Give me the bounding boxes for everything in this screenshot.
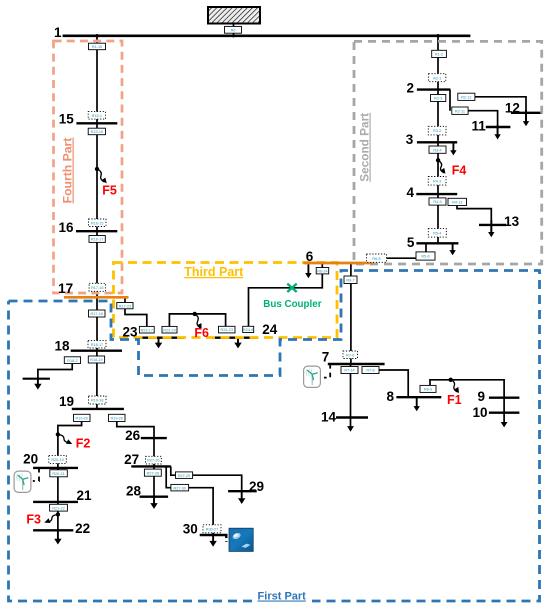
svg-text:R27-30: R27-30 [174, 486, 186, 490]
svg-text:R27-29: R27-29 [178, 474, 190, 478]
wire bus 6 feeder drop [321, 263, 323, 268]
svg-text:R24-6: R24-6 [243, 328, 253, 332]
bus 8 [396, 396, 441, 398]
svg-text:12: 12 [505, 100, 520, 115]
relay R18-19 [88, 356, 104, 363]
svg-text:6: 6 [306, 249, 314, 264]
bus 23 [137, 337, 184, 339]
First Part boundary polygon [9, 271, 540, 602]
Fourth Part boundary box [54, 41, 123, 293]
wire relay R2-12 to bus 12 [475, 97, 526, 122]
wire bus 27 to bus 30 branch [166, 466, 171, 487]
bus 24 [212, 337, 258, 339]
fault dot F5 [95, 167, 99, 171]
wire bus 7 to bus 14 [350, 364, 352, 427]
wire bus 30 to PV dashes [225, 536, 227, 543]
svg-text:R4-13: R4-13 [452, 201, 462, 205]
wire relay R27-30 to bus 30 [189, 488, 214, 535]
svg-text:R20-21: R20-21 [52, 472, 64, 476]
svg-text:R1-2: R1-2 [435, 53, 443, 57]
svg-text:24: 24 [262, 322, 278, 337]
wire bus 18 load branch [38, 364, 72, 379]
Second Part boundary box [354, 41, 542, 264]
load arrow at bus 5 [449, 243, 455, 255]
relay R7-8 [362, 367, 379, 374]
load arrow at bus 3 [450, 142, 456, 155]
wire bus 19 to bus 26 branch [117, 422, 154, 468]
svg-text:11: 11 [471, 118, 486, 133]
svg-text:R18-2: R18-2 [67, 359, 77, 363]
svg-text:R2-12: R2-12 [461, 95, 471, 99]
load arrow at bus 24 [234, 338, 241, 349]
wire bus 15 to bus 16 [96, 123, 98, 231]
load arrow at bus 29 [238, 491, 245, 504]
wind turbine connector at bus 7 [324, 364, 330, 378]
bus 12 [511, 112, 542, 114]
wire bus 6 to bus 7 [350, 263, 352, 364]
svg-text:R18-17: R18-17 [91, 343, 103, 347]
bus 15 [76, 122, 117, 124]
load arrow at bus 13 [488, 220, 494, 237]
svg-text:13: 13 [504, 214, 520, 229]
relay R2-1 [429, 74, 446, 82]
wire bus 17 to bus 23 [125, 297, 147, 326]
relay R20-19 [49, 456, 67, 464]
load arrow at bus 8 [414, 397, 420, 411]
relay R15-16 [88, 128, 105, 135]
svg-text:F1: F1 [447, 393, 462, 407]
svg-text:4: 4 [406, 185, 414, 200]
bus 10 [489, 412, 520, 414]
bus 29 [228, 490, 257, 492]
relay R27-29 [176, 472, 193, 479]
svg-text:1: 1 [54, 25, 62, 40]
bus coupler X switch [287, 284, 296, 292]
wire relay R5-6 to bus 5 [425, 243, 427, 252]
svg-text:R20-19: R20-19 [51, 458, 63, 462]
bus 28 [140, 496, 169, 498]
fault dot F6 [193, 312, 197, 316]
svg-text:R19-20: R19-20 [76, 417, 88, 421]
relay R18-17 [88, 341, 106, 348]
junction on bus 1 at grid [232, 34, 235, 37]
svg-text:7: 7 [322, 349, 330, 364]
wire bus 17 to bus 18 [96, 297, 98, 350]
svg-text:3: 3 [406, 132, 414, 147]
relay R30-27 [203, 525, 221, 533]
svg-text:R23-24: R23-24 [163, 328, 175, 332]
fault dot F2 [56, 432, 60, 436]
svg-text:R17-18: R17-18 [91, 312, 103, 316]
wire bus 16 to bus 17 [96, 231, 98, 297]
svg-text:R17-23: R17-23 [119, 304, 131, 308]
svg-text:R16-17: R16-17 [91, 238, 103, 242]
svg-text:22: 22 [75, 521, 90, 536]
relay R6-24 [316, 268, 329, 274]
bus 16 [76, 230, 117, 232]
svg-text:2: 2 [406, 80, 414, 95]
svg-text:Third Part: Third Part [184, 265, 244, 279]
wire bus 8 to buses 9 and 10 [430, 380, 504, 423]
junction on bus 1 at R1-2 feeder [436, 34, 440, 38]
bus 11 [486, 126, 511, 128]
svg-text:10: 10 [472, 405, 487, 420]
svg-text:27: 27 [124, 452, 139, 467]
svg-text:R19-26: R19-26 [111, 417, 123, 421]
load arrow at bus 30 [209, 535, 216, 547]
svg-text:5: 5 [407, 235, 415, 250]
load arrow at bus 28 [150, 497, 157, 509]
bus 22 [33, 529, 73, 531]
svg-text:F4: F4 [452, 163, 467, 177]
svg-text:R17-16: R17-16 [91, 286, 103, 290]
bus 2 [417, 88, 451, 90]
relay R24-23 [219, 326, 236, 333]
relay R24-6 [243, 326, 254, 332]
svg-text:Fourth Part: Fourth Part [61, 138, 75, 204]
bus 3 [417, 141, 457, 143]
svg-text:First Part: First Part [258, 591, 307, 603]
svg-text:R0: R0 [231, 28, 236, 32]
junction on bus 1 at R1-15 feeder [95, 34, 99, 38]
svg-text:R23-17: R23-17 [141, 328, 153, 332]
relay R19-20 [74, 414, 91, 421]
relay R2-12 [458, 93, 475, 100]
svg-text:R5-6: R5-6 [421, 255, 429, 259]
relay R4-5 [429, 198, 446, 205]
load arrow at bus 23 [155, 338, 162, 349]
svg-text:14: 14 [321, 409, 337, 424]
relay R27-30 [171, 484, 189, 491]
relay R16-17 [89, 236, 105, 243]
wire bus 6 to bus 5 link [387, 257, 417, 259]
arrowhead bus 14 load [347, 426, 354, 432]
wire grid to bus 1 [233, 24, 235, 36]
svg-text:F5: F5 [102, 184, 117, 198]
svg-text:21: 21 [76, 488, 92, 503]
svg-text:R6-5: R6-5 [372, 257, 380, 261]
relay R21-22 [50, 504, 68, 511]
wire bus 20 to bus 21 [57, 468, 59, 502]
bus 26 [141, 437, 167, 439]
bus 4 [416, 193, 457, 195]
svg-text:26: 26 [125, 428, 141, 443]
bus 6 (orange) [303, 262, 373, 265]
fault squiggle F5 [97, 169, 109, 185]
svg-text:R30-27: R30-27 [206, 527, 218, 531]
svg-text:R27-28: R27-28 [147, 471, 159, 475]
svg-text:15: 15 [59, 111, 75, 126]
relay R17-23 [117, 303, 133, 309]
relay R1-15 [89, 43, 106, 50]
relay R6-5 [367, 254, 387, 262]
tie line bus 23 to bus 24 [169, 314, 225, 327]
relay R27-26 [146, 456, 162, 464]
svg-text:R3-4: R3-4 [433, 148, 441, 152]
wire bus 24 to bus coupler [249, 274, 323, 326]
wire bus 27 to bus 29 branch [171, 466, 176, 475]
svg-text:R16-15: R16-15 [91, 221, 103, 225]
svg-text:R6-24: R6-24 [317, 269, 327, 273]
bus 20 [33, 467, 78, 469]
relay R5-6 [416, 252, 435, 260]
svg-text:R2-3: R2-3 [434, 97, 442, 101]
relay R2-11 [452, 107, 468, 114]
svg-text:F6: F6 [194, 326, 209, 340]
svg-text:23: 23 [122, 325, 138, 340]
svg-text:16: 16 [58, 220, 74, 235]
bus 14 [336, 416, 368, 418]
relay R3-2 [428, 126, 446, 135]
svg-text:R18-19: R18-19 [90, 358, 102, 362]
load arrow at bus 12 [523, 110, 529, 126]
relay R27-28 [144, 469, 161, 476]
svg-text:F3: F3 [26, 513, 41, 527]
relay R1-2 [432, 50, 447, 57]
fault dot F3 [56, 512, 60, 516]
load arrow at bus 18 branch [34, 379, 41, 390]
relay R4-13 [448, 198, 467, 205]
svg-text:R7-14: R7-14 [344, 369, 354, 373]
wind turbine at bus 20 [14, 471, 31, 492]
PV panel at bus 30 [229, 528, 253, 551]
relay R18-2 [64, 357, 80, 364]
relay R6-7 [344, 276, 357, 284]
wire bus 19 to bus 20 [58, 422, 82, 468]
relay R2-3 [431, 95, 446, 102]
bus 27 [131, 465, 171, 467]
svg-text:R4-5: R4-5 [433, 200, 441, 204]
fault squiggle F4 [438, 160, 447, 175]
svg-text:18: 18 [54, 338, 70, 353]
svg-text:29: 29 [249, 479, 264, 494]
svg-text:R3-2: R3-2 [433, 129, 441, 133]
bus 21 [33, 501, 78, 503]
svg-text:Second Part: Second Part [358, 113, 372, 182]
wire relay R2-11 to bus 11 [468, 111, 498, 135]
bus 17 (orange) [64, 296, 129, 299]
bus 30 [200, 534, 228, 536]
relay R0 [225, 26, 242, 33]
svg-text:28: 28 [126, 483, 142, 498]
fault squiggle F2 [58, 435, 73, 447]
svg-text:R1-15: R1-15 [92, 45, 102, 49]
relay R23-24 [162, 326, 177, 333]
svg-text:R15-1: R15-1 [92, 114, 102, 118]
relay R17-16 [89, 283, 105, 291]
svg-text:R24-23: R24-23 [221, 328, 233, 332]
svg-text:R21-22: R21-22 [52, 506, 64, 510]
bus 18 [71, 350, 122, 352]
wire bus 18 to bus 19 [96, 351, 98, 409]
relay R7-14 [341, 367, 358, 374]
svg-text:R2-11: R2-11 [455, 109, 465, 113]
relay R15-1 [88, 112, 105, 120]
wind turbine at bus 7 [304, 366, 321, 387]
svg-text:R15-16: R15-16 [91, 130, 103, 134]
svg-text:9: 9 [477, 389, 485, 404]
relay R19-26 [109, 414, 126, 421]
relay R16-15 [89, 219, 107, 227]
svg-text:R7-8: R7-8 [366, 369, 374, 373]
fault squiggle F6 [195, 314, 204, 330]
relay R8-9 [420, 385, 436, 392]
load arrow at bus 22 [54, 530, 61, 544]
relay R4-3 [428, 177, 446, 186]
load bar at bus 18 branch [23, 378, 50, 380]
svg-text:8: 8 [386, 389, 394, 404]
relay R19-18 [89, 396, 107, 404]
relay R23-17 [139, 326, 154, 333]
bus 5 [416, 242, 458, 244]
Third Part boundary box [114, 263, 338, 338]
bus 13 [479, 224, 506, 226]
bus 1 [63, 34, 471, 37]
svg-text:R6-7: R6-7 [346, 278, 354, 282]
fault squiggle F1 [451, 380, 461, 395]
bus 9 [489, 397, 520, 399]
wire bus 1 to bus 15 [96, 36, 98, 124]
svg-text:R2-1: R2-1 [433, 76, 441, 80]
relay R7-6 [343, 351, 358, 359]
load arrow at bus 11 [494, 125, 500, 140]
wind turbine connector at bus 20 [33, 468, 39, 481]
svg-text:17: 17 [58, 281, 73, 296]
load arrow at bus 6 [305, 264, 311, 278]
svg-text:R5-4: R5-4 [433, 231, 441, 235]
relay R17-18 [89, 310, 106, 317]
svg-text:R19-18: R19-18 [91, 399, 103, 403]
svg-text:R4-3: R4-3 [433, 179, 441, 183]
relay R3-4 [429, 146, 446, 153]
wire relay R27-29 to bus 29 [193, 475, 242, 491]
fault dot F1 [449, 378, 453, 382]
svg-text:R8-9: R8-9 [424, 388, 432, 392]
svg-text:30: 30 [183, 522, 198, 537]
wire relay R4-13 to bus 13 [457, 206, 491, 233]
wire bus 2 branch stub [449, 90, 451, 111]
svg-text:19: 19 [59, 394, 74, 409]
relay R5-4 [428, 229, 446, 238]
svg-text:Bus Coupler: Bus Coupler [263, 299, 321, 310]
external grid symbol [208, 7, 260, 24]
bus 19 [72, 408, 124, 410]
bus 7 [328, 363, 385, 365]
svg-text:20: 20 [23, 451, 38, 466]
wire bus 1 to bus 5 feeder [437, 36, 439, 244]
fault dot F4 [436, 158, 440, 162]
svg-text:R7-6: R7-6 [346, 353, 354, 357]
wire bus 7 to bus 8 [379, 370, 408, 397]
svg-text:R27-26: R27-26 [147, 459, 159, 463]
fault squiggle F3 [43, 515, 58, 525]
wire bus 27 to bus 28 [153, 466, 155, 496]
arrowhead buses 9-10 load [501, 422, 508, 427]
svg-text:F2: F2 [76, 436, 91, 450]
relay R20-21 [50, 470, 68, 477]
wire bus 21 to bus 22 [57, 502, 59, 530]
